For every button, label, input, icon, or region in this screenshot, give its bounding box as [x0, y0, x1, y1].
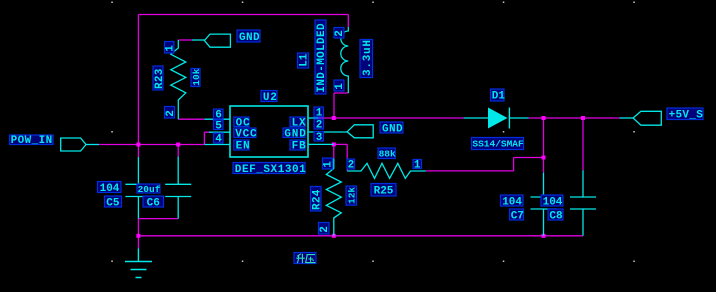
junction rail R24: [332, 234, 336, 238]
label boost text (Chinese): [294, 253, 316, 264]
wire port lead +5V_S: [620, 117, 634, 119]
label C6 value 20uf: [137, 184, 160, 193]
svg-text:+5V_S: +5V_S: [669, 110, 704, 122]
wire POW_IN net: [99, 144, 204, 146]
wire port lead POW_IN: [86, 144, 99, 146]
wire GND pin2 stub to port: [308, 131, 347, 133]
label GND middle: [380, 122, 403, 133]
wire top loop left vertical: [137, 15, 139, 145]
pin label L1-1 (rotated): [334, 80, 344, 91]
svg-text:104: 104: [543, 196, 563, 208]
wire R25 pin1 feedback horizontal: [426, 170, 514, 172]
capacitor C8: [570, 170, 596, 236]
diode D1 cathode bar: [508, 108, 510, 129]
ground: [125, 248, 152, 277]
pin label L1-2 (rotated): [334, 28, 344, 39]
svg-text:POW_IN: POW_IN: [11, 135, 53, 147]
port +5V_S: [633, 111, 661, 125]
capacitor C7: [531, 173, 557, 236]
svg-text:20uf: 20uf: [138, 184, 161, 195]
pin OC stub: [204, 118, 230, 120]
svg-text:1: 1: [164, 45, 176, 52]
junction rail C7: [542, 234, 546, 238]
svg-text:SS14/SMAF: SS14/SMAF: [472, 139, 524, 150]
svg-text:R25: R25: [374, 186, 394, 198]
svg-text:U2: U2: [263, 92, 278, 104]
wire C6 drop: [177, 145, 179, 157]
wire C5 drop: [137, 145, 139, 158]
wire VCC jog vertical: [203, 132, 205, 144]
label R23 (rotated): [153, 66, 163, 90]
wire LX net horizontal: [319, 117, 464, 119]
junction C7 / D1 out: [542, 116, 546, 120]
junction C6 tap: [176, 143, 180, 147]
pin EN stub: [204, 144, 230, 146]
svg-text:D1: D1: [492, 91, 506, 103]
wire top loop horizontal: [138, 14, 348, 16]
svg-text:1: 1: [334, 83, 346, 90]
capacitor C5: [125, 157, 151, 219]
svg-text:104: 104: [502, 196, 522, 208]
svg-text:3: 3: [316, 132, 323, 144]
svg-text:L1: L1: [299, 53, 311, 67]
wire port lead GND top: [192, 39, 204, 41]
pin FB stub: [308, 143, 334, 145]
diode D1 cathode lead: [509, 117, 528, 119]
svg-text:2: 2: [348, 160, 355, 172]
label C7: [510, 209, 524, 220]
svg-text:GND: GND: [382, 123, 403, 135]
wire top loop right vertical to L1 pin 2: [347, 15, 349, 28]
pin label R24-2 (rotated): [319, 223, 330, 235]
svg-text:2: 2: [316, 120, 323, 132]
svg-text:FB: FB: [292, 141, 307, 153]
svg-text:C8: C8: [549, 210, 563, 222]
wire D1 cathode to +5V_S: [529, 117, 620, 119]
pin label R24-1 (rotated): [323, 158, 333, 169]
wire C7 drop: [543, 118, 545, 173]
diode D1 triangle: [488, 108, 508, 129]
junction rail ground: [136, 234, 140, 238]
junction feedback step: [542, 156, 546, 160]
wire R23 pin2 to OC pin: [178, 118, 204, 120]
pin 6 number: [214, 109, 224, 119]
svg-text:R24: R24: [312, 189, 324, 210]
svg-text:1: 1: [323, 161, 335, 168]
wire C5 bottom to rail: [137, 219, 139, 236]
label U2: [261, 91, 277, 102]
label C5 value 104: [98, 182, 122, 193]
label L1 value 3.3uH (rotated): [360, 40, 373, 78]
resistor R24: [326, 158, 341, 235]
svg-text:3.3uH: 3.3uH: [362, 39, 374, 76]
svg-text:IND-MOLDED: IND-MOLDED: [316, 23, 328, 93]
wire L1 drop vertical: [333, 93, 335, 118]
svg-text:C6: C6: [147, 197, 160, 209]
wire ground riser: [137, 236, 139, 248]
label C5: [105, 196, 122, 207]
IC U2 body: [230, 106, 308, 157]
label C7 value 104: [501, 195, 524, 206]
wire R25 pin2 drop: [346, 144, 348, 171]
wire feedback step vertical: [513, 158, 515, 171]
svg-text:4: 4: [215, 134, 222, 146]
pin name VCC: [234, 128, 256, 138]
capacitor C6: [165, 157, 191, 219]
pin name FB: [290, 140, 305, 150]
wire R23 pin1 to GND port: [178, 39, 192, 41]
label SS14/SMAF: [472, 138, 524, 150]
label POW_IN: [10, 135, 54, 145]
pin name OC: [234, 117, 249, 127]
label R24 (rotated): [311, 187, 322, 212]
port GND top: [204, 34, 230, 47]
pin label R25-2: [347, 159, 355, 169]
label R25: [371, 184, 396, 197]
pin LX stub: [308, 117, 319, 119]
svg-text:EN: EN: [236, 141, 251, 153]
svg-text:DEF_SX1301: DEF_SX1301: [235, 164, 307, 176]
svg-text:2: 2: [319, 226, 331, 233]
label D1: [491, 89, 505, 101]
svg-text:12k: 12k: [346, 187, 357, 204]
label GND top: [237, 30, 260, 42]
pin name EN: [234, 140, 249, 150]
svg-text:1: 1: [414, 159, 421, 171]
svg-text:5: 5: [215, 120, 222, 132]
pin label R23-2 (rotated): [165, 107, 175, 119]
wire FB to R25 horizontal: [334, 143, 348, 145]
svg-text:GND: GND: [239, 32, 260, 44]
svg-text:C7: C7: [511, 210, 524, 222]
label C8: [548, 209, 563, 220]
svg-text:104: 104: [100, 183, 120, 195]
junction C8 / D1 out: [581, 116, 585, 120]
pin label R25-1: [413, 160, 422, 169]
svg-text:2: 2: [165, 110, 177, 117]
svg-text:GND: GND: [284, 128, 306, 140]
svg-text:VCC: VCC: [235, 128, 257, 140]
wire L1 pin1 to LX net: [334, 92, 348, 94]
port GND middle: [347, 125, 373, 138]
label R24 value 12k (rotated): [346, 186, 357, 205]
inductor L1: [341, 27, 348, 93]
resistor R25: [347, 163, 426, 178]
pin 2 number: [314, 119, 324, 129]
svg-text:1: 1: [316, 108, 323, 120]
pin label R23-1 (rotated): [165, 42, 175, 54]
label IND-MOLDED (rotated): [315, 20, 326, 94]
svg-text:C5: C5: [106, 197, 120, 209]
pin name GND: [283, 128, 305, 138]
resistor R23: [171, 40, 186, 119]
label R25 value 88k: [378, 148, 395, 159]
label L1 (rotated): [298, 53, 309, 68]
port POW_IN: [61, 138, 86, 151]
wire C8 drop: [582, 118, 584, 170]
pin 3 number: [314, 132, 324, 142]
diode D1 anode lead: [464, 117, 488, 119]
wire VCC jog horizontal: [204, 131, 209, 133]
wire C6 bottom horizontal: [138, 218, 178, 220]
pin 1 number: [314, 107, 324, 117]
label C6: [143, 196, 164, 207]
junction L1 / LX: [332, 116, 336, 120]
pin 4 number: [214, 133, 224, 143]
label C8 value 104: [541, 195, 563, 206]
pin 5 number: [214, 120, 224, 130]
wire feedback step horizontal: [514, 157, 544, 159]
label DEF_SX1301: [233, 163, 305, 174]
wire R24 pin1 drop: [333, 144, 335, 158]
svg-text:2: 2: [334, 30, 346, 37]
pin name LX: [290, 117, 305, 127]
junction POW_IN / C5: [136, 143, 140, 147]
label +5V_S: [667, 108, 703, 120]
junction FB node: [332, 142, 336, 146]
label R23 value 10k (rotated): [191, 69, 200, 87]
wire bottom rail: [138, 235, 583, 237]
svg-text:88k: 88k: [379, 149, 396, 160]
svg-text:R23: R23: [154, 68, 166, 89]
svg-text:10k: 10k: [191, 68, 202, 85]
pin VCC stub: [209, 131, 230, 133]
